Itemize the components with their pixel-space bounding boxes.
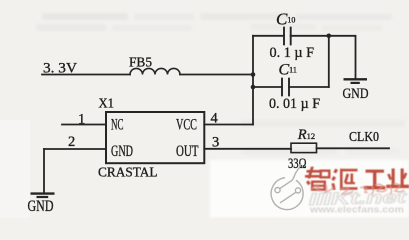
svg-text:CRASTAL: CRASTAL [98, 165, 158, 180]
capacitor C10 [284, 28, 291, 45]
capacitor C11 [282, 79, 289, 96]
inductor FB5 [130, 68, 180, 74]
wire top to ground drop [329, 36, 356, 79]
watermark chinese text zhi hui gong ye [305, 167, 409, 191]
faint bleedthrough band top [36, 13, 392, 31]
crystal oscillator X1 box [106, 112, 204, 163]
watermark logo circle [271, 164, 303, 209]
svg-text:0. 1 µ F: 0. 1 µ F [270, 45, 315, 61]
svg-text:0. 01 µ F: 0. 01 µ F [269, 96, 320, 112]
node A junction dot 3.3V/rail [251, 72, 256, 77]
char zhi [305, 167, 331, 191]
wire C11 left lead [253, 86, 282, 88]
svg-text:FB5: FB5 [129, 56, 152, 71]
svg-text:3. 3V: 3. 3V [43, 60, 77, 76]
wire vertical rail right of capacitors [328, 36, 330, 87]
svg-text:NC: NC [111, 117, 124, 134]
wire vertical rail left of capacitors [252, 36, 254, 125]
char gong [364, 170, 386, 190]
svg-text:GND: GND [111, 143, 133, 160]
wire C10 right lead [291, 35, 329, 37]
wire pin 3 OUT to resistor [204, 148, 291, 150]
resistor R12 body [291, 143, 317, 152]
char hui [331, 169, 357, 191]
svg-text:OUT: OUT [176, 143, 199, 160]
wire C11 right lead [289, 86, 329, 88]
svg-text:GND: GND [28, 198, 54, 215]
node junction dot C11/rail [251, 85, 256, 90]
svg-text:CLK0: CLK0 [349, 129, 379, 144]
wire pin 2 GND lead [44, 148, 106, 150]
wire pin 4 VCC to rail [204, 124, 253, 126]
svg-text:www.elecfans.com: www.elecfans.com [309, 205, 404, 216]
svg-text:2: 2 [68, 134, 75, 150]
ground symbol right [344, 79, 368, 83]
svg-text:GND: GND [343, 86, 369, 102]
wire 3.3V rail left segment [42, 74, 130, 76]
wire C10 left lead [253, 35, 284, 37]
faint bleedthrough band mid-right [240, 120, 405, 155]
watermark red script line [311, 184, 404, 194]
svg-text:X1: X1 [99, 97, 115, 112]
wire resistor to CLK0 [317, 147, 390, 149]
char ye [386, 169, 409, 189]
svg-text:1: 1 [78, 112, 85, 128]
svg-text:4: 4 [211, 110, 219, 126]
wire pin 1 NC lead [62, 124, 106, 126]
svg-text:VCC: VCC [176, 117, 197, 134]
wire FB5 to node A [180, 74, 253, 76]
svg-text:3: 3 [212, 134, 219, 150]
watermark gray site text [309, 187, 409, 209]
wire pin 2 down to ground [43, 149, 45, 193]
ground symbol left [31, 194, 55, 197]
node junction dot C10/ground branch [327, 34, 332, 39]
